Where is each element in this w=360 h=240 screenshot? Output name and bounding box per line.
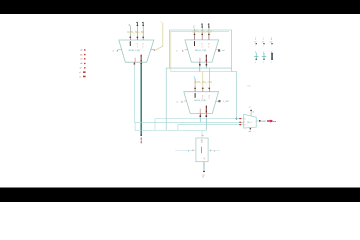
U3 wire junction dots: [194, 87, 210, 89]
svg-text:2: 2: [208, 46, 209, 48]
svg-text:nx44: nx44: [262, 121, 266, 123]
U2 wire junction dots: [194, 34, 210, 36]
svg-text:ck: ck: [202, 135, 204, 137]
wire horizontal bus 1: [155, 119, 244, 130]
U3 top pin stubs: [195, 93, 211, 100]
U1 left pin A: [112, 49, 121, 52]
mux U2 (top-right): [185, 40, 219, 62]
svg-text:0: 0: [244, 119, 245, 121]
U2 output stubs and dots: [199, 62, 207, 66]
svg-text:2: 2: [244, 125, 245, 127]
svg-text:2: 2: [263, 62, 264, 64]
U1 bottom pin labels: [135, 55, 142, 63]
feedback loop box (teal): [166, 30, 232, 72]
U4 input pin numbers: [244, 119, 245, 127]
U5 bottom output wire: [202, 162, 205, 179]
feedback loop (yellow): [171, 31, 233, 71]
node loop joins bus: [236, 118, 238, 120]
wire U1 output1 (dark teal vertical): [140, 65, 142, 135]
U5 left pin: [175, 150, 196, 152]
tiny port symbols grid row 2: [254, 52, 259, 65]
svg-text:in: in: [112, 50, 114, 52]
svg-text:MUX4_1#(8): MUX4_1#(8): [194, 100, 206, 102]
U4 bottom pin: [249, 128, 252, 134]
U2 top input wires: [195, 28, 209, 40]
wire U3 output1 drop to lower bus: [205, 117, 207, 130]
U3 wire lower segments (reddish): [195, 89, 209, 91]
svg-text:17: 17: [201, 142, 203, 144]
svg-text:in: in: [176, 51, 178, 53]
svg-text:rs: rs: [79, 76, 81, 78]
U5 right pin: [208, 150, 220, 152]
wire horizontal bus 2: [134, 121, 243, 123]
svg-text:q: q: [214, 150, 215, 152]
wire teal elbow to loop: [166, 68, 236, 130]
U1 right pin S: [151, 50, 156, 52]
output port arrow: [267, 120, 277, 124]
mux U4 (output 2:1, sideways): [244, 114, 257, 128]
U3 right pin: [216, 100, 230, 103]
bottom letterbox bar: [0, 188, 360, 203]
wire horizontal bus 3: [178, 125, 244, 131]
svg-text:t1: t1: [202, 176, 204, 179]
node on output: [259, 120, 261, 122]
U1 top input wires: [130, 24, 143, 40]
U3 bottom pin labels: [200, 106, 207, 114]
wire U2 output0 drop: [199, 66, 201, 72]
svg-text:1: 1: [202, 98, 203, 100]
svg-text:DATA_SEL_B0: DATA_SEL_B0: [127, 31, 144, 34]
svg-text:2: 2: [271, 62, 272, 64]
svg-text:M2_1: M2_1: [247, 122, 252, 124]
U2 right pin: [216, 49, 225, 52]
U3 output stubs and dots: [199, 113, 207, 117]
node end of dark wire: [140, 134, 142, 136]
U1 select wire (yellow): [155, 22, 163, 50]
svg-text:2: 2: [209, 98, 210, 100]
U1 wire top labels: [129, 22, 145, 27]
wire U1 output0 (cyan vertical): [133, 65, 135, 123]
svg-text:1_OUT: 1_OUT: [223, 101, 230, 103]
svg-text:DATA_SEL_C01: DATA_SEL_C01: [194, 81, 212, 84]
mux U1 (top-left): [119, 40, 154, 62]
U1 wire junction dots: [129, 36, 144, 38]
svg-text:MUX4_1#(8): MUX4_1#(8): [129, 50, 141, 52]
svg-text:in: in: [177, 102, 179, 104]
input port column labels: [79, 49, 85, 78]
U3 top input wires: [195, 68, 209, 92]
clk port label below dark wire: [141, 137, 142, 143]
U1 wire lower segments (reddish): [130, 38, 143, 40]
register U5 (bottom rectangle): [196, 138, 208, 162]
U2 left pin: [176, 49, 188, 52]
U5 internal top text: [201, 140, 203, 144]
svg-text:d: d: [188, 150, 189, 152]
tiny port symbols grid (top-right) row 1: [254, 36, 257, 47]
top letterbox bar: [0, 0, 360, 14]
svg-text:2: 2: [255, 62, 256, 64]
U2 wire top labels: [193, 24, 210, 29]
U2 wire lower segments (reddish): [195, 36, 209, 40]
svg-text:1: 1: [202, 46, 203, 48]
svg-text:1: 1: [137, 46, 138, 48]
U3 left pin: [177, 100, 187, 103]
U4 output wire: [256, 120, 266, 122]
U4 select pin (top): [249, 107, 254, 116]
wire horizontal bus 4 to register: [135, 122, 206, 138]
U1 top pin stubs: [130, 41, 145, 48]
wire U2 output1 drop: [205, 66, 207, 69]
svg-text:2: 2: [143, 46, 144, 48]
U2 top pin stubs: [194, 41, 210, 48]
U2 bottom pin labels: [200, 55, 207, 63]
wire U3 output0 drop to bus: [199, 117, 201, 122]
mux U3 (middle): [184, 92, 219, 114]
svg-text:MUX4_1#(8): MUX4_1#(8): [195, 50, 207, 52]
U4 input pin dots: [239, 118, 241, 126]
U1 output stubs and dots: [134, 62, 143, 65]
